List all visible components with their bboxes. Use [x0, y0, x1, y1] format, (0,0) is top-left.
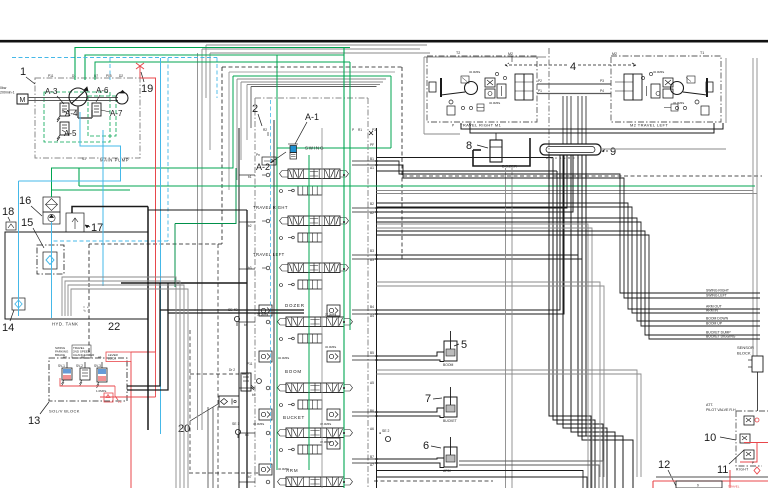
- pump bottom labels: [82, 157, 129, 163]
- svg-text:SV-2: SV-2: [76, 364, 83, 368]
- regulator A-4: [57, 103, 69, 122]
- svg-text:8: 8: [466, 140, 472, 152]
- red line from breather: [140, 71, 156, 352]
- svg-text:SWING RIGHT: SWING RIGHT: [706, 289, 729, 293]
- pump A-3: [69, 87, 88, 106]
- bottom red box: [653, 481, 768, 488]
- pilot line BOOM UP: [377, 222, 761, 326]
- svg-text:R1: R1: [358, 128, 362, 132]
- label 5: [454, 339, 467, 351]
- valve internal node dots: [343, 174, 345, 483]
- valve internal green rail: [276, 55, 278, 470]
- label 12: [658, 459, 676, 486]
- svg-text:P05: P05: [106, 74, 112, 78]
- gray nest line a: [229, 72, 395, 190]
- svg-text:A2: A2: [81, 355, 85, 359]
- label 8: [466, 140, 488, 152]
- svg-text:A6: A6: [370, 427, 374, 431]
- regulator A-7: [92, 103, 101, 116]
- svg-text:SWING LEFT: SWING LEFT: [706, 294, 727, 298]
- svg-text:27.0MPa: 27.0MPa: [325, 313, 337, 317]
- svg-text:32.0MPa: 32.0MPa: [325, 345, 337, 349]
- port b4 right: [370, 305, 374, 318]
- bucket left glyphs: [266, 431, 282, 451]
- arm spool: [278, 477, 353, 487]
- label 18: [2, 206, 14, 221]
- gray drain 4: [377, 286, 605, 477]
- port b3: [248, 249, 374, 270]
- dashed boundary mid right: [403, 175, 762, 177]
- svg-text:1.0MPa: 1.0MPa: [96, 389, 107, 393]
- green filter feed: [52, 189, 131, 191]
- svg-text:11: 11: [717, 464, 728, 476]
- filter 16: [43, 197, 60, 212]
- svg-text:BOOM: BOOM: [443, 363, 454, 367]
- label 17: [85, 222, 103, 234]
- svg-text:P: P: [352, 128, 354, 132]
- att valve glyph 1: [744, 416, 759, 425]
- dozer line b4: [377, 155, 561, 310]
- svg-text:200min-1: 200min-1: [0, 91, 15, 95]
- boom cylinder 5: [443, 331, 457, 367]
- svg-text:ARM: ARM: [286, 468, 298, 473]
- bypass valve 15: [43, 252, 57, 269]
- red drop to box: [729, 470, 731, 488]
- boom relief left: [259, 351, 290, 362]
- svg-text:Dr 2: Dr 2: [229, 368, 235, 372]
- svg-text:M2: M2: [508, 52, 513, 56]
- bypass valve 15 box: [37, 245, 64, 274]
- red line to lever lock: [131, 351, 156, 353]
- svg-text:15: 15: [21, 217, 33, 229]
- cyan drain line 2: [102, 130, 104, 286]
- pilot line ARM OUT: [377, 203, 761, 309]
- svg-text:BUCKET: BUCKET: [443, 419, 457, 423]
- line from 20 down: [208, 407, 213, 488]
- travel motor left block M2: [611, 56, 721, 122]
- bucket sub valve: [288, 445, 322, 454]
- svg-text:A7: A7: [370, 463, 374, 467]
- svg-text:4: 4: [570, 61, 576, 73]
- svg-text:A-7: A-7: [110, 109, 123, 118]
- pilot line SWING RIGHT: [377, 161, 761, 293]
- solenoid valve SV-1: [58, 362, 72, 386]
- M2 label top 2: [612, 52, 617, 56]
- svg-text:BLOCK: BLOCK: [737, 351, 751, 356]
- port P1 red: [115, 386, 122, 404]
- swing line to swivel 1: [377, 157, 554, 159]
- heavy return vertical: [147, 207, 149, 431]
- label 19: [141, 72, 153, 95]
- label 16: [19, 195, 42, 216]
- cyan drain line 1: [19, 112, 121, 181]
- pilot line SWING LEFT: [377, 165, 761, 298]
- svg-text:ARM: ARM: [443, 469, 451, 473]
- svg-text:32.0MPa: 32.0MPa: [469, 70, 481, 74]
- svg-text:A1: A1: [370, 166, 374, 170]
- svg-text:PILOT VALVE R.H: PILOT VALVE R.H: [706, 408, 736, 412]
- port b5 right: [370, 351, 374, 385]
- svg-text:12: 12: [658, 459, 670, 471]
- valve internal green line 2: [349, 62, 351, 330]
- sensor SE 2: [379, 429, 391, 442]
- svg-text:R2: R2: [263, 128, 267, 132]
- arm cylinder 6: [443, 437, 457, 473]
- center dashdot divider: [548, 48, 550, 176]
- red line lever lock down: [130, 361, 132, 488]
- travel right line a2: [377, 155, 574, 212]
- dozer section label: [285, 303, 305, 308]
- electric motor M: [17, 94, 28, 104]
- svg-text:A4: A4: [370, 314, 374, 318]
- boom sub valve: [288, 400, 322, 409]
- svg-text:13: 13: [28, 415, 40, 427]
- gray sensor line 1: [377, 190, 754, 192]
- dozer caption: [502, 165, 517, 169]
- svg-text:BOOM: BOOM: [285, 369, 302, 374]
- swing section label: [305, 146, 324, 151]
- bucket relief right: [320, 409, 340, 426]
- port PF right: [370, 143, 374, 147]
- boom left glyphs: [266, 386, 282, 406]
- svg-text:A-3: A-3: [45, 87, 58, 96]
- bottom inner box: [676, 481, 740, 488]
- control valve enclosure: [255, 98, 368, 488]
- swing anti-drift valve A-1: [288, 144, 298, 159]
- svg-text:32.0MPa: 32.0MPa: [653, 70, 665, 74]
- att pilot valve enclosure: [736, 411, 768, 466]
- check valve 18: [6, 222, 16, 230]
- T2 label: [456, 51, 460, 55]
- cyan tank line: [18, 181, 20, 316]
- travel left caption: [630, 123, 668, 128]
- green pump line 1: [75, 48, 350, 81]
- svg-text:PF: PF: [370, 143, 374, 147]
- svg-text:M: M: [20, 97, 26, 104]
- svg-text:6: 6: [423, 440, 429, 452]
- sensor SE 4B: [228, 308, 248, 327]
- label 22: [108, 321, 120, 333]
- svg-text:D2: D2: [119, 74, 123, 78]
- svg-text:A-4: A-4: [65, 109, 78, 118]
- svg-text:P3: P3: [372, 128, 376, 132]
- svg-text:B4: B4: [370, 305, 374, 309]
- bottom dashed 2: [374, 480, 493, 482]
- svg-text:A1: A1: [98, 355, 102, 359]
- pump internal pipe 2: [78, 106, 92, 118]
- green pump line 2: [85, 55, 344, 80]
- travel right caption: [452, 123, 502, 128]
- port A3: [63, 355, 67, 359]
- port b2: [248, 202, 374, 228]
- svg-text:TRAVEL LEFT: TRAVEL LEFT: [253, 252, 285, 257]
- valve work port stubs: [352, 161, 377, 463]
- travel left label: [253, 252, 285, 257]
- dozer relief left: [257, 305, 272, 317]
- svg-text:b3: b3: [248, 266, 252, 270]
- swivel joint 9: [540, 144, 601, 155]
- hydraulic tank: [5, 232, 148, 319]
- port b6 right: [370, 409, 374, 431]
- att valve glyph 2: [740, 434, 750, 443]
- svg-text:ARM IN: ARM IN: [706, 309, 718, 313]
- valve internal green mid: [308, 155, 310, 470]
- swing line to swivel 2: [377, 170, 558, 172]
- svg-text:P: P: [752, 461, 754, 465]
- svg-text:32.0MPa: 32.0MPa: [278, 356, 290, 360]
- travel left sub valve: [288, 280, 322, 289]
- sensor SE 1: [232, 422, 249, 438]
- ports P R1 P3: [352, 128, 376, 135]
- pump internal pipe: [69, 106, 92, 110]
- arm section label: [286, 468, 298, 473]
- solenoid valve SV-2: [76, 362, 90, 386]
- arm relief left: [259, 464, 290, 475]
- svg-text:7: 7: [425, 393, 431, 405]
- label 11: [717, 450, 744, 476]
- swivel drop 8: [585, 155, 587, 436]
- outer gray boundary: [202, 49, 420, 430]
- pump drive shaft: [28, 98, 118, 101]
- return to valve rail: [148, 209, 247, 211]
- gray tank return L4: [71, 289, 188, 488]
- valve internal green line: [343, 48, 345, 488]
- dashed pilot drop: [190, 330, 249, 470]
- main pump enclosure: [35, 78, 140, 158]
- green LS line: [79, 168, 755, 186]
- valve left rail 2: [246, 210, 248, 488]
- gray nest line c: [241, 82, 383, 160]
- travel left spool: [280, 263, 349, 273]
- swivel port letters: [546, 156, 580, 160]
- valve right rail dots: [375, 160, 377, 464]
- arm long pair a7: [377, 477, 588, 488]
- return line filter17: [72, 207, 148, 214]
- svg-text:A-1: A-1: [305, 112, 319, 122]
- tank label: [52, 322, 78, 327]
- svg-text:SE 1: SE 1: [232, 422, 239, 426]
- pump inner dashed box 2: [88, 96, 116, 136]
- travel right label: [253, 205, 288, 210]
- valve A-5: [57, 122, 69, 141]
- breather 19 symbol: [136, 63, 144, 72]
- svg-text:18: 18: [2, 206, 14, 218]
- gray tank return L2: [65, 281, 180, 488]
- M2 label top: [508, 52, 513, 62]
- svg-text:P1: P1: [118, 400, 122, 404]
- gray tank return L1: [62, 277, 176, 488]
- travel motor right block M1: [427, 56, 537, 122]
- port b1: [248, 157, 374, 179]
- gray boundary top right: [424, 57, 546, 134]
- motor crossover lines: [537, 84, 611, 94]
- label 6: [423, 440, 441, 452]
- text swing parking brake: [55, 346, 69, 357]
- svg-text:B5: B5: [370, 351, 374, 355]
- svg-text:32.0MPa: 32.0MPa: [253, 422, 265, 426]
- svg-text:32.0MPa: 32.0MPa: [489, 101, 501, 105]
- dozer line a4: [377, 155, 565, 314]
- att red line 1: [744, 442, 768, 444]
- motor rating text: [0, 86, 15, 95]
- arm relief right: [320, 438, 340, 449]
- valve right rail: [376, 128, 378, 488]
- svg-text:SV-1: SV-1: [58, 364, 65, 368]
- label 15: [21, 217, 44, 248]
- pilot line BOOM DOWN: [377, 218, 761, 321]
- svg-text:B1: B1: [370, 157, 374, 161]
- swing sub valve: [288, 186, 322, 195]
- svg-text:32.0MPa: 32.0MPa: [673, 101, 685, 105]
- long line arm a7: [459, 465, 599, 488]
- svg-text:BOOM DOWN: BOOM DOWN: [706, 317, 729, 321]
- gray drain 1: [377, 224, 589, 488]
- svg-text:MAIN PUMP: MAIN PUMP: [100, 158, 129, 163]
- label 2: [252, 103, 262, 126]
- sensor rail gray pair: [726, 58, 757, 356]
- svg-text:B2: B2: [370, 202, 374, 206]
- travel left line a3: [377, 155, 583, 259]
- text lever lock: [106, 352, 131, 362]
- label 4 with arrows: [505, 61, 636, 73]
- svg-text:19: 19: [141, 83, 153, 95]
- svg-text:P: P: [452, 124, 454, 128]
- svg-text:A-2: A-2: [256, 162, 270, 172]
- svg-text:HYD. TANK: HYD. TANK: [52, 322, 78, 327]
- boom cylinder lines: [377, 352, 445, 362]
- cyan dashed into pump: [109, 58, 111, 81]
- travel right sub valve: [288, 233, 322, 242]
- solenoid block red gallery: [60, 378, 115, 386]
- label A-5: [62, 129, 77, 138]
- solenoid valve SV-3: [94, 362, 107, 388]
- green branch left: [175, 168, 236, 287]
- swivel drop 6: [578, 255, 623, 488]
- travel right line b2: [377, 155, 568, 208]
- pump port labels: [48, 74, 123, 78]
- label A-7: [101, 109, 123, 118]
- T1 label: [700, 51, 704, 55]
- green suction line: [52, 76, 234, 197]
- svg-text:14: 14: [2, 322, 14, 334]
- svg-text:M2 TRAVEL LEFT: M2 TRAVEL LEFT: [630, 123, 668, 128]
- gray sensor line 2: [377, 193, 758, 195]
- svg-text:LOCK: LOCK: [108, 357, 116, 361]
- bucket cylinder 7: [443, 387, 457, 423]
- boom section label: [285, 369, 302, 374]
- svg-text:DOZER: DOZER: [285, 303, 305, 308]
- svg-text:10: 10: [704, 432, 716, 444]
- dozer left glyphs: [266, 320, 282, 340]
- dozer spool: [278, 317, 353, 327]
- label A-3: [45, 87, 64, 104]
- svg-text:S1: S1: [82, 157, 86, 161]
- bucket cylinder lines: [377, 408, 445, 418]
- label A-2: [256, 152, 286, 172]
- att pilot valve label: [706, 403, 736, 412]
- svg-text:1: 1: [20, 66, 26, 78]
- svg-text:b7: b7: [248, 475, 252, 479]
- att valve glyph 3: [744, 450, 754, 459]
- boom relief right: [325, 345, 340, 362]
- svg-text:9: 9: [610, 146, 616, 158]
- cyan line through 15: [51, 222, 53, 318]
- svg-text:SV-3: SV-3: [94, 364, 101, 368]
- gray tank return L3: [68, 285, 184, 488]
- svg-text:BUCKET DIGGING: BUCKET DIGGING: [706, 335, 736, 339]
- pump inner dashed box: [44, 92, 110, 142]
- label 9: [602, 146, 616, 158]
- svg-text:0kw: 0kw: [0, 86, 7, 90]
- att red line 2: [740, 443, 757, 463]
- swivel drop 1: [549, 155, 591, 488]
- sensor block label: [737, 345, 754, 356]
- pilot line BUCKET DIGGING: [377, 235, 761, 339]
- svg-text:A-6: A-6: [96, 86, 109, 95]
- bucket spool: [278, 428, 353, 438]
- drain valve Dr2: [229, 362, 261, 397]
- top border line: [0, 40, 768, 43]
- svg-text:SE 2: SE 2: [382, 429, 389, 433]
- svg-text:A5: A5: [370, 381, 374, 385]
- svg-text:D1: D1: [72, 74, 76, 78]
- gray drain 6: [377, 374, 642, 477]
- port A1: [98, 355, 102, 359]
- travel left left glyphs: [262, 266, 283, 286]
- svg-text:P1: P1: [538, 89, 542, 93]
- dozer sub valve: [288, 334, 322, 343]
- svg-text:16: 16: [19, 195, 31, 207]
- gray nest line b: [237, 79, 386, 180]
- bucket relief left: [253, 409, 272, 426]
- gray drain 3: [377, 282, 601, 477]
- P2 P1 labels: [538, 79, 604, 93]
- label A-4: [62, 109, 78, 118]
- text travel 2nd speed: [72, 345, 95, 358]
- dashed boundary right side: [401, 67, 403, 262]
- svg-text:SENSOR: SENSOR: [737, 345, 754, 350]
- travel right left glyphs: [262, 219, 283, 239]
- svg-text:P11: P11: [247, 362, 253, 366]
- valve internal black rail: [273, 120, 275, 488]
- accumulator 20 box: [219, 396, 239, 407]
- svg-text:DOZER: DOZER: [502, 165, 517, 169]
- svg-text:T2: T2: [456, 51, 460, 55]
- gray drain dozer 2: [511, 168, 513, 488]
- svg-text:ATT.: ATT.: [706, 403, 713, 407]
- arm left glyphs: [266, 480, 270, 484]
- label 14: [2, 310, 14, 334]
- heavy branch down 2: [127, 283, 168, 390]
- dashed boundary drop: [217, 244, 219, 488]
- label 20: [178, 404, 218, 435]
- svg-text:Pn: Pn: [256, 153, 260, 157]
- travel left line b3: [377, 155, 579, 255]
- bucket section label: [283, 415, 305, 420]
- gray drain 5: [377, 370, 638, 477]
- sensor block component: [748, 356, 763, 411]
- right caption: [736, 468, 749, 472]
- motor bottom line pair: [461, 123, 723, 133]
- valve internal gray rail: [321, 128, 323, 488]
- svg-text:A3: A3: [63, 355, 67, 359]
- label 10: [704, 432, 736, 444]
- swing spool: [280, 169, 349, 179]
- svg-text:BOOM UP: BOOM UP: [706, 322, 723, 326]
- swing left glyphs: [262, 173, 283, 192]
- bottom gray box top: [656, 476, 768, 478]
- swivel drop 3: [557, 171, 603, 488]
